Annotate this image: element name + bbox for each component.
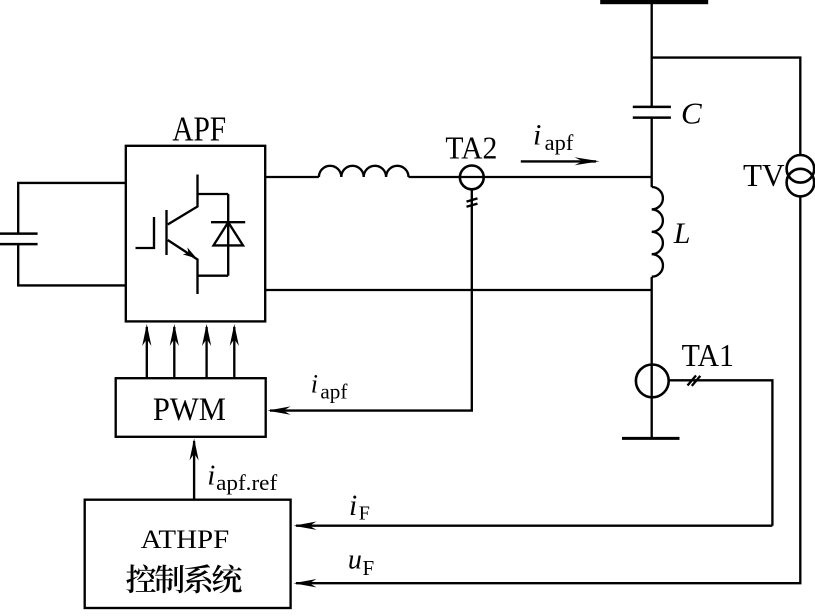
svg-text:u: u — [348, 545, 362, 576]
svg-text:PWM: PWM — [153, 392, 226, 428]
svg-text:F: F — [363, 556, 375, 580]
svg-text:TV: TV — [743, 157, 785, 193]
svg-text:TA2: TA2 — [445, 130, 497, 166]
svg-text:L: L — [673, 217, 691, 250]
svg-text:C: C — [681, 96, 702, 131]
svg-text:apf.ref: apf.ref — [216, 470, 278, 495]
svg-text:i: i — [207, 460, 215, 492]
svg-text:apf: apf — [545, 130, 574, 155]
svg-text:ATHPF: ATHPF — [141, 524, 230, 554]
svg-text:F: F — [359, 503, 370, 525]
svg-text:i: i — [349, 490, 357, 522]
svg-text:TA1: TA1 — [682, 337, 734, 373]
svg-text:apf: apf — [320, 379, 347, 403]
svg-text:i: i — [533, 119, 541, 152]
svg-text:i: i — [311, 370, 318, 399]
svg-text:APF: APF — [172, 109, 226, 148]
